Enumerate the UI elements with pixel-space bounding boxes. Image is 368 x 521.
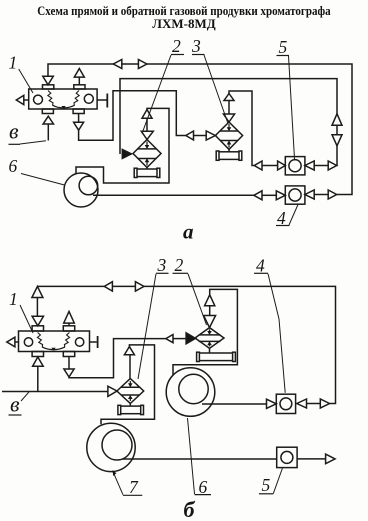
- flow arrow left on L1b: [104, 282, 112, 291]
- vent wire from reducer 3 to rotameter 5 left: [229, 91, 254, 166]
- reducer 3b inner arrow bottom: [129, 399, 131, 401]
- detector cell left (b): [24, 338, 32, 346]
- label 2 leader: [142, 55, 171, 134]
- detector block 1 body: [29, 89, 97, 109]
- flow arrow left on filter 3 feed: [186, 131, 194, 140]
- vent arrow up of reducer 2: [142, 110, 152, 119]
- compressor 6b rotor: [179, 374, 208, 403]
- fitting bottom-right (b): [63, 352, 74, 357]
- title: Схема прямой и обратной газовой продувки хроматографа ЛХМ-8МД: [0, 4, 368, 31]
- flow arrow left on top line: [113, 60, 122, 69]
- wire segment to reducer 2b: [173, 338, 186, 340]
- block 1b left outlet arrow: [7, 337, 15, 347]
- svg-text:в: в: [10, 391, 20, 416]
- flow arrow left on rotameter 5 left line: [254, 161, 262, 170]
- outlet arrow right of rotameter 5b: [326, 454, 336, 464]
- flow arrow up under bottom-left fitting (b): [33, 357, 44, 366]
- label 6b leader: [188, 418, 195, 494]
- reducer 3 diamond: [215, 122, 242, 149]
- fitting top-right of block 1: [74, 85, 85, 89]
- stem of top-right fitting: [78, 77, 80, 85]
- rotameter 5b body: [277, 447, 297, 467]
- label 4 leader: [289, 205, 298, 226]
- wire rotameter 5 right segment: [314, 165, 328, 167]
- blower 7 casing: [87, 423, 135, 471]
- blower 6 rotor: [79, 176, 98, 195]
- rotameter 5 float: [289, 160, 301, 172]
- label 3b leader: [138, 274, 156, 379]
- flow arrow up on riser (b): [32, 286, 43, 297]
- vent arrow up of reducer 3b: [124, 347, 134, 355]
- flow arrow right into rotameter 5: [278, 161, 286, 170]
- svg-text:3: 3: [191, 36, 201, 56]
- reducer 2b diamond: [195, 328, 224, 349]
- block 1b right port wire: [90, 341, 97, 343]
- rotameter 5 body: [285, 157, 305, 175]
- svg-text:3: 3: [157, 255, 167, 275]
- flow arrow down on bottom-right stem (b): [64, 369, 74, 377]
- label 5b leader: [273, 468, 282, 494]
- reducer 3b band lower: [121, 394, 139, 396]
- fitting top-right (b): [63, 326, 74, 331]
- reducer 2b base stem: [209, 348, 211, 353]
- detector cell right: [84, 94, 93, 103]
- wire from bottom-right fitting to filter 3 feed: [79, 91, 186, 141]
- reducer 2 band upper: [138, 148, 157, 150]
- stem above reducer 3b: [129, 355, 131, 379]
- svg-text:5: 5: [279, 37, 288, 57]
- detector bottom arc (b): [42, 347, 65, 350]
- stem above reducer 2: [146, 118, 148, 131]
- flow arrow down on bottom-right stem: [74, 122, 84, 130]
- rotameter 4b body: [276, 394, 295, 413]
- wire from compressor 6b to rotameter 4b: [202, 403, 267, 405]
- vent arrow up of reducer 3: [224, 94, 234, 101]
- flow arrow left out of rotameter 4b: [297, 399, 307, 408]
- rotameter 4 body: [285, 186, 305, 204]
- vent arrow up of top-right fitting (b): [64, 311, 75, 323]
- label vb leader: [21, 392, 29, 401]
- flow arrow left on reducer 2b feed: [166, 335, 173, 343]
- wire rotameter 4b right segment: [307, 403, 321, 405]
- detector block 1 body (b): [19, 331, 90, 352]
- riser from top-left fitting (b): [36, 298, 38, 317]
- detector cell right (b): [75, 338, 83, 346]
- flow arrow up on L2 right leg: [332, 114, 342, 126]
- wire out of rotameter 5b: [297, 458, 326, 460]
- flow arrow right into reducer 3b: [108, 386, 117, 396]
- fitting top-left of block 1: [43, 85, 54, 89]
- flow arrow right into rotameter 4b left: [267, 399, 277, 408]
- block 1 left outlet arrow: [16, 95, 24, 104]
- wire segment to filter 3: [194, 135, 207, 137]
- reducer 2b band lower: [199, 340, 221, 342]
- reducer 2b base: [199, 353, 234, 361]
- vent loop wire from reducer 2 to blower 6 duct: [76, 108, 169, 183]
- wire inlet v (scheme a): [47, 124, 49, 141]
- reducer 3b base stem: [129, 404, 131, 407]
- filament zigzag left (b): [37, 333, 42, 348]
- rotameter 4b float: [280, 398, 292, 410]
- svg-text:а: а: [183, 219, 194, 243]
- fitting bottom-right of block 1: [73, 109, 84, 114]
- filament zigzag left: [48, 91, 53, 106]
- detector bottom arc: [53, 105, 75, 108]
- label 3 leader: [204, 55, 228, 124]
- svg-text:б: б: [184, 497, 196, 521]
- svg-text:7: 7: [129, 477, 139, 497]
- vent loop wire reducer 3b to blower 7: [101, 345, 155, 424]
- rotameter 4 float: [289, 189, 301, 201]
- label 4b leader: [268, 274, 285, 393]
- label 2b leader: [188, 274, 207, 325]
- arc center tick (b): [51, 348, 56, 351]
- flow arrow down on L2 right leg: [332, 135, 342, 146]
- block 1 left outlet wire: [24, 99, 29, 101]
- compressor 6b casing: [166, 368, 215, 417]
- reducer 2b inner arrow top: [209, 329, 211, 331]
- top line L1b to rotameter 4b: [37, 286, 335, 403]
- valve arrow down onto top-left fitting: [43, 76, 54, 85]
- fitting bottom-left of block 1: [42, 109, 53, 114]
- label 6 leader: [21, 174, 65, 186]
- arc center tick: [61, 106, 66, 109]
- blower 7 rotor: [102, 430, 132, 460]
- filament zigzag right (b): [64, 333, 69, 348]
- reducer 3 inner arrow bottom: [228, 143, 230, 148]
- flow arrow up under bottom-left fitting: [43, 116, 53, 124]
- reducer 2 band lower: [138, 158, 156, 160]
- svg-text:1: 1: [9, 289, 18, 309]
- feed arrow into reducer 2 (filled): [122, 149, 131, 158]
- reducer 2b inner arrow bottom: [209, 344, 211, 346]
- stem above reducer 3: [228, 101, 230, 115]
- reducer 2 base stem: [146, 168, 148, 170]
- valve arrow down onto top-left fitting (b): [32, 316, 43, 326]
- flow arrow right on top line: [138, 60, 147, 69]
- label v (inlet) leader: [20, 141, 46, 144]
- label 1 leader: [19, 69, 33, 93]
- flow arrow left into rotameter 5 right: [305, 161, 314, 170]
- flow arrow right near rotameter 4b right: [320, 399, 329, 408]
- stem under bottom-right fitting: [78, 114, 80, 123]
- fitting top-left (b): [32, 326, 43, 331]
- svg-text:5: 5: [262, 475, 271, 495]
- wire rotameter 4 right segment: [314, 194, 328, 196]
- label 7 leader arrowhead: [113, 471, 117, 476]
- svg-text:1: 1: [9, 53, 18, 73]
- flow arrow right on L1b: [135, 282, 144, 291]
- detector cell left: [34, 95, 43, 104]
- svg-text:4: 4: [256, 256, 265, 276]
- valve arrow down above reducer 3: [223, 114, 234, 122]
- flow arrow right near rotameter 4 right: [328, 190, 337, 199]
- svg-text:6: 6: [9, 156, 18, 176]
- inlet line v (b): [2, 391, 108, 393]
- vent arrow up of reducer 2b: [205, 295, 215, 306]
- flow arrow right near rotameter 5 right: [328, 161, 337, 170]
- block 1 right port cap: [106, 94, 108, 108]
- svg-text:2: 2: [172, 36, 181, 56]
- wire L2 from reducer 2 feed to rotameter 5 right: [120, 79, 337, 166]
- reducer 3 inner arrow top: [228, 124, 230, 129]
- rotameter 5b float: [281, 451, 293, 463]
- wire from blower 7 to rotameter 5b: [122, 458, 277, 460]
- filament zigzag right: [74, 91, 79, 106]
- valve arrow down above reducer 2b: [204, 316, 216, 328]
- reducer 3 band lower: [220, 140, 237, 142]
- svg-text:в: в: [9, 118, 19, 143]
- reducer 2 base: [136, 169, 158, 177]
- reducer 3b diamond: [117, 379, 144, 404]
- stem under bottom-right fitting (b): [68, 357, 70, 370]
- reducer 3 base stem: [228, 149, 230, 152]
- wire from bottom-right fitting to reducer 2b feed: [69, 339, 166, 378]
- reducer 3 band upper: [220, 130, 238, 132]
- reducer 3b inner arrow top: [129, 381, 131, 384]
- block 1b left outlet wire: [15, 341, 19, 343]
- block 1 right port wire: [97, 99, 106, 101]
- reducer 2 inner arrow bottom: [146, 161, 148, 166]
- stem of top-right fitting (b): [68, 323, 70, 326]
- reducer 2 diamond: [133, 140, 161, 168]
- riser from bottom-left fitting to inlet line (b): [37, 366, 39, 391]
- blower 6 casing: [64, 173, 98, 207]
- wire top line L1 from block1 to rotameter 4: [48, 64, 352, 195]
- reducer 2b band upper: [199, 334, 221, 336]
- block 1b right port cap: [97, 336, 99, 348]
- flow arrow left into rotameter 4 right: [305, 190, 314, 199]
- reducer 3b base: [120, 406, 142, 414]
- flow arrow right into rotameter 4: [276, 191, 285, 200]
- label 7 leader: [113, 471, 123, 495]
- fitting bottom-left (b): [32, 352, 43, 357]
- flow arrow left on rotameter 4 left line: [254, 191, 262, 200]
- stem above reducer 2b: [209, 306, 211, 316]
- flow arrow up on top-right stem: [74, 69, 84, 78]
- reducer 2 inner arrow top: [146, 142, 148, 147]
- wire from blower 6 to rotameter 4 left: [93, 194, 254, 196]
- label 1b leader: [20, 305, 33, 333]
- reducer 3 base: [218, 152, 240, 160]
- valve arrow down above reducer 2: [141, 131, 153, 139]
- wire segment to rotameter 5: [262, 165, 278, 167]
- vent loop wire reducer 2b to compressor 6b: [173, 289, 237, 375]
- flow arrow right into filter 3: [206, 131, 215, 140]
- reducer 3b band upper: [121, 386, 139, 388]
- wire segment to rotameter 4: [262, 194, 276, 196]
- label 5 leader: [289, 56, 295, 161]
- svg-text:2: 2: [175, 255, 184, 275]
- feed arrow into reducer 2b (filled): [186, 333, 195, 344]
